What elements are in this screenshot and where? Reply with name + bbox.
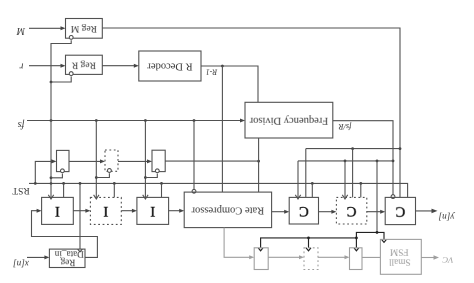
wire FSM clock to gray registers	[261, 232, 377, 247]
junction reg3 out	[257, 160, 260, 163]
wire fs clock to Rate Compressor bubble	[193, 121, 195, 190]
wire reg1 input from RST	[35, 159, 56, 183]
svg-text:C: C	[396, 203, 406, 219]
svg-text:RST: RST	[12, 185, 30, 195]
reg2 clock bubble	[108, 169, 112, 173]
wire Rate Compressor tap to gray reg A	[224, 228, 254, 260]
junction RST I1	[62, 182, 65, 185]
gray register A	[254, 248, 268, 270]
junction RST x51	[50, 182, 53, 185]
wire C2 to C3	[367, 210, 385, 214]
wire Reg M output to C3 M bus	[102, 28, 400, 197]
svg-text:x[n]: x[n]	[13, 259, 30, 269]
reg3 clock bubble	[155, 169, 159, 173]
wire M input	[29, 26, 66, 30]
junction RST C2	[359, 182, 362, 185]
wire RST to C2	[360, 183, 362, 197]
wire x[n] input	[27, 255, 49, 259]
wire M bus to C2	[352, 149, 354, 198]
junction fs/R branch	[392, 160, 395, 163]
block Frequency Divisor	[245, 102, 333, 138]
junction fs/R C2	[344, 160, 347, 163]
junction R-1 branch	[221, 65, 224, 68]
junction reg1 clock join	[50, 176, 53, 179]
junction M bus C2	[351, 147, 354, 150]
gray register B dashed	[304, 248, 318, 270]
clock wedge gray reg A	[258, 248, 263, 251]
junction RST Reg Data_in clock	[79, 182, 82, 185]
wire C1 to C2	[319, 210, 337, 214]
junction fs x145	[144, 119, 147, 122]
wire Reg M clock to fs vertical	[51, 40, 71, 82]
wire fs/R down to FSM clock net	[376, 161, 378, 233]
svg-text:I: I	[150, 203, 155, 219]
svg-text:Reg R: Reg R	[71, 60, 96, 70]
wire reg2 to reg3	[118, 159, 152, 163]
wire M bus distribution	[306, 149, 400, 198]
wire reg2 bubble to clock	[96, 173, 109, 177]
wire gray A to B	[268, 255, 304, 259]
junction FSM clock corner	[376, 231, 379, 234]
wire FSM clock to Small FSM	[377, 232, 384, 239]
clock wedge Small FSM	[382, 239, 387, 242]
wire fs clock vertical stage1	[48, 82, 53, 199]
wire R-1 output	[201, 66, 258, 102]
wire I3 to Rate Compressor	[169, 209, 185, 213]
wire y[n] output	[416, 209, 438, 214]
svg-text:y[n]: y[n]	[438, 212, 455, 222]
wire gray C to Small FSM	[362, 256, 380, 258]
wire RST to Reg Data_in bubble	[79, 183, 81, 249]
reg1 clock bubble	[61, 169, 65, 173]
Reg M clock bubble	[69, 36, 73, 40]
integrator I2 dashed	[90, 197, 121, 224]
svg-text:fs/R: fs/R	[339, 122, 352, 131]
register pipeline reg1	[57, 150, 70, 171]
wire r input	[29, 64, 66, 68]
wire I2 to I3	[121, 209, 137, 213]
svg-text:M: M	[16, 25, 26, 36]
register pipeline reg3	[152, 150, 165, 171]
comb C3	[385, 197, 415, 224]
svg-text:fs: fs	[18, 119, 25, 130]
junction reg3 clock join	[144, 176, 147, 179]
wire reg1 bubble to clock	[51, 174, 62, 178]
wire VC output	[421, 255, 439, 259]
wire gray B to C	[318, 255, 350, 259]
junction fs/R FSM branch	[376, 160, 379, 163]
clock wedge gray reg C	[354, 248, 359, 251]
comb C1	[289, 197, 318, 224]
svg-text:I: I	[55, 203, 60, 219]
wire reg3 output to FD bottom net	[165, 160, 258, 162]
Rate Compressor clock bubble	[192, 189, 196, 193]
wire reg3 bubble to clock	[145, 174, 157, 178]
arrowhead C1 clock	[295, 195, 300, 199]
integrator I3	[137, 197, 169, 224]
junction fs x51	[50, 119, 53, 122]
junction gray reg B clock	[307, 237, 310, 240]
wire RST to I3	[161, 183, 163, 197]
wire Reg Data_in output loop to I1	[32, 209, 98, 258]
clock wedge gray reg B	[306, 248, 311, 251]
junction M bus at x400	[399, 147, 402, 150]
Reg R clock bubble	[69, 72, 73, 76]
wire fs/R output	[333, 121, 393, 195]
svg-text:Reg: Reg	[60, 257, 75, 267]
svg-text:Frequency Divisor: Frequency Divisor	[249, 115, 328, 126]
wire fs clock vertical stage2	[94, 121, 99, 200]
integrator I1	[42, 197, 74, 224]
junction RST I2	[113, 182, 116, 185]
register Reg M	[66, 19, 103, 39]
svg-text:C: C	[299, 203, 309, 219]
junction fs x194	[193, 119, 196, 122]
Reg Data_in clock bubble	[78, 249, 83, 252]
block R Decoder	[139, 51, 201, 81]
block Small FSM	[380, 239, 421, 274]
svg-text:FSM: FSM	[390, 247, 409, 257]
wire I1 to I2	[73, 209, 90, 213]
wire FD bottom to Rate Compressor top	[258, 138, 260, 192]
wire Reg R clock to fs vertical	[51, 76, 71, 82]
svg-text:R-1: R-1	[206, 68, 219, 77]
svg-text:C: C	[347, 203, 357, 219]
junction RST I3	[160, 182, 163, 185]
register pipeline reg2 dashed	[105, 150, 118, 171]
wire RST to C1	[311, 183, 313, 197]
junction gray reg C clock	[355, 237, 358, 240]
block Rate Compressor	[184, 192, 271, 228]
wire R-1 to Rate Compressor	[221, 66, 223, 192]
wire reg1 to reg2	[69, 159, 105, 163]
wire Reg R output to R Decoder	[102, 64, 139, 68]
svg-text:r: r	[19, 60, 23, 71]
C3 clock bubble	[391, 195, 395, 199]
junction RST C1	[311, 182, 314, 185]
svg-text:Small: Small	[389, 257, 411, 267]
comb C2 dashed	[336, 197, 366, 224]
wire fs/R clock distribution line	[298, 161, 393, 198]
svg-text:Rate Compressor: Rate Compressor	[191, 205, 264, 216]
wire fs clock vertical stage3	[143, 121, 148, 200]
svg-text:R Decoder: R Decoder	[147, 61, 193, 72]
register Reg Data_in	[49, 249, 85, 267]
wire RST line	[29, 183, 408, 197]
wire fs/R to C2	[342, 161, 347, 199]
register Reg R	[66, 55, 103, 74]
gray register C	[350, 248, 363, 270]
svg-text:Reg M: Reg M	[70, 23, 97, 33]
junction RST reg1 input	[34, 182, 37, 185]
junction fs x96	[95, 119, 98, 122]
junction fs clock at Reg R	[50, 81, 53, 84]
wire Rate Compressor to C1	[272, 210, 290, 214]
svg-text:I: I	[103, 203, 108, 219]
wire fs line	[27, 119, 245, 123]
wire RST to I2	[113, 183, 115, 197]
svg-text:VC: VC	[442, 255, 453, 265]
wire RST to I1	[63, 183, 65, 197]
junction reg2 clock join	[95, 176, 98, 179]
